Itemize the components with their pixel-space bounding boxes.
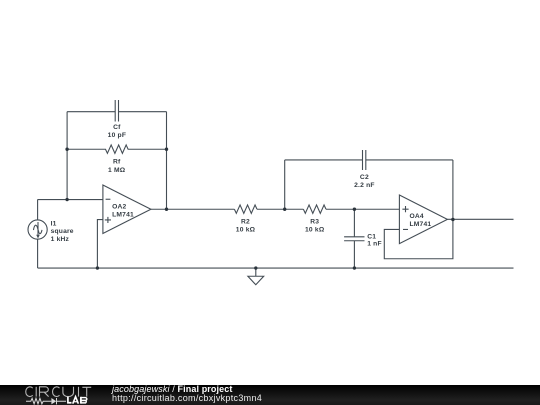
svg-text:10 kΩ: 10 kΩ bbox=[305, 226, 325, 233]
svg-text:C1: C1 bbox=[367, 234, 376, 241]
svg-text:C2: C2 bbox=[360, 174, 369, 181]
svg-text:1 MΩ: 1 MΩ bbox=[108, 167, 126, 174]
svg-text:square: square bbox=[51, 228, 74, 235]
svg-text:OA2: OA2 bbox=[112, 204, 126, 211]
svg-text:10 kΩ: 10 kΩ bbox=[236, 226, 256, 233]
svg-text:2.2 nF: 2.2 nF bbox=[354, 182, 375, 189]
svg-text:LM741: LM741 bbox=[112, 212, 134, 219]
svg-text:1 kHz: 1 kHz bbox=[51, 236, 70, 243]
svg-text:Rf: Rf bbox=[113, 159, 121, 166]
svg-text:R3: R3 bbox=[310, 218, 319, 225]
svg-text:I1: I1 bbox=[51, 220, 57, 227]
svg-text:1 nF: 1 nF bbox=[367, 241, 382, 248]
svg-text:R2: R2 bbox=[241, 218, 250, 225]
svg-text:Cf: Cf bbox=[113, 124, 121, 131]
svg-text:OA4: OA4 bbox=[410, 213, 424, 220]
svg-text:10 pF: 10 pF bbox=[108, 132, 126, 139]
svg-text:LM741: LM741 bbox=[410, 221, 432, 228]
